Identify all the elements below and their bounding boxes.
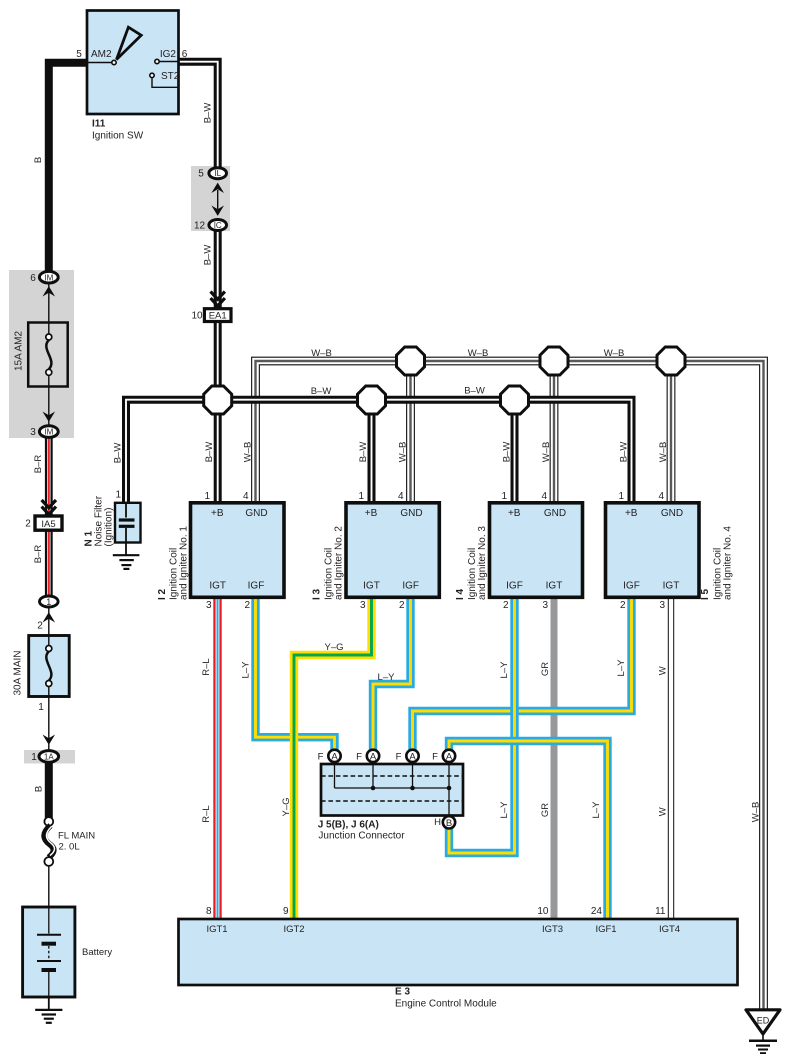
svg-text:10: 10 (537, 906, 549, 917)
svg-text:A: A (370, 751, 377, 762)
junction pin A2 (367, 750, 379, 762)
node octagon W-B at I3 column (397, 347, 425, 375)
svg-text:1: 1 (116, 490, 122, 501)
svg-text:L–Y: L–Y (499, 661, 510, 679)
svg-text:15A AM2: 15A AM2 (14, 331, 25, 371)
svg-text:1: 1 (618, 491, 624, 502)
svg-text:1: 1 (31, 752, 37, 763)
svg-text:L–Y: L–Y (616, 659, 627, 677)
svg-text:3: 3 (30, 427, 36, 438)
svg-text:R–L: R–L (201, 658, 212, 675)
ED ground triangle (746, 1010, 780, 1034)
connector EA1 (204, 309, 231, 322)
svg-text:+B: +B (508, 508, 521, 519)
arrow up below IL (211, 183, 224, 193)
svg-text:30A MAIN: 30A MAIN (13, 650, 24, 695)
svg-text:1: 1 (204, 491, 210, 502)
svg-text:IGT: IGT (363, 580, 380, 591)
fuse 15A AM2 box (28, 323, 67, 387)
junction internal bus (334, 762, 336, 788)
svg-text:8: 8 (206, 906, 212, 917)
svg-text:B: B (446, 818, 452, 829)
svg-text:AM2: AM2 (91, 49, 112, 60)
svg-text:IGF: IGF (506, 580, 523, 591)
svg-text:IGT: IGT (546, 580, 563, 591)
wire thin: 30A MAIN to 1A (48, 697, 50, 751)
arrow down above IC (211, 206, 224, 216)
svg-text:Y–G: Y–G (324, 642, 343, 653)
battery ground (48, 997, 50, 1010)
svg-text:and Igniter No. 4: and Igniter No. 4 (723, 526, 734, 600)
svg-text:24: 24 (591, 906, 603, 917)
wire B-W horizontal bus with ends down to noise filter and I5 +B (126, 400, 632, 503)
svg-text:3: 3 (206, 600, 212, 611)
svg-text:GND: GND (245, 508, 267, 519)
svg-text:F: F (396, 752, 402, 763)
svg-text:H: H (434, 817, 441, 828)
svg-text:IC: IC (214, 221, 222, 230)
svg-text:GR: GR (540, 662, 551, 676)
svg-text:R–L: R–L (201, 805, 212, 822)
svg-text:W–B: W–B (658, 442, 669, 463)
gray band IL/IC connectors (191, 166, 230, 231)
connector IA5 (35, 516, 62, 530)
connector oval 5 IL (209, 168, 227, 179)
svg-text:(Ignition): (Ignition) (104, 508, 115, 547)
svg-text:4: 4 (658, 491, 664, 502)
svg-text:Ignition SW: Ignition SW (92, 131, 144, 142)
svg-text:A: A (409, 751, 416, 762)
svg-text:I11: I11 (92, 119, 106, 130)
svg-text:2: 2 (244, 600, 250, 611)
svg-text:5: 5 (76, 49, 82, 60)
wire L-Y: I2 IGF to junction A1 (256, 597, 335, 754)
svg-text:B–W: B–W (311, 386, 332, 397)
svg-text:IL: IL (214, 169, 221, 178)
terminal ST2 contact and line (150, 73, 154, 77)
svg-text:Engine Control Module: Engine Control Module (395, 999, 497, 1010)
terminal line IG2 (159, 61, 178, 63)
svg-text:IM: IM (44, 273, 53, 282)
svg-text:Junction Connector: Junction Connector (318, 831, 405, 842)
wire W-B net: I2 GND up, across top, down right side to ED (256, 361, 764, 1010)
ignition coil I4 box (490, 503, 583, 598)
gray band fuse 15A AM2 (9, 270, 74, 438)
terminal IG2 contact (155, 59, 159, 63)
wire Y-G: I3 IGT to ECM IGT2 (294, 597, 372, 919)
wire B-W branch to I4 +B (511, 400, 519, 503)
svg-text:and Igniter No. 3: and Igniter No. 3 (477, 526, 488, 600)
svg-text:I 3: I 3 (312, 588, 323, 600)
svg-text:5: 5 (198, 169, 204, 180)
svg-text:W–B: W–B (604, 348, 625, 359)
svg-text:IGF: IGF (402, 580, 419, 591)
svg-text:F: F (318, 752, 324, 763)
svg-text:IGT3: IGT3 (542, 924, 563, 935)
svg-text:1: 1 (38, 702, 44, 713)
svg-text:6: 6 (182, 49, 188, 60)
svg-text:I 2: I 2 (157, 588, 168, 600)
junction pin A4 (443, 750, 455, 762)
junction pin B (443, 816, 455, 828)
svg-text:2: 2 (25, 519, 31, 530)
svg-text:IGT1: IGT1 (206, 924, 227, 935)
svg-text:+B: +B (211, 508, 224, 519)
wire W-B branch to I4 GND (550, 361, 559, 503)
svg-text:B–W: B–W (113, 443, 124, 464)
svg-text:B–W: B–W (619, 442, 630, 463)
wire B-R from IA5 to connector 1 (45, 530, 53, 597)
capacitor inside noise filter (125, 503, 127, 518)
svg-text:2: 2 (503, 600, 509, 611)
fusible link FL MAIN (44, 817, 53, 826)
battery box (23, 907, 75, 997)
svg-text:IGF1: IGF1 (595, 924, 616, 935)
ignition coil I5 box (606, 503, 700, 598)
connector oval 3 IM (39, 426, 58, 438)
fuse 30A MAIN box (29, 636, 69, 697)
ignition coil I3 box (346, 503, 439, 598)
svg-text:3: 3 (360, 600, 366, 611)
svg-text:L–Y: L–Y (241, 661, 252, 679)
wire thin: oval1 to 30A MAIN (48, 607, 50, 636)
svg-text:I 4: I 4 (455, 588, 466, 600)
svg-text:ST2: ST2 (161, 71, 180, 82)
wire B-W branch to I3 +B (368, 400, 376, 503)
svg-text:ED: ED (757, 1015, 770, 1025)
svg-text:IM: IM (44, 428, 53, 437)
arrow chevrons above IA5 (42, 500, 56, 514)
arrow up to oval 1 (43, 612, 56, 622)
svg-text:A: A (331, 751, 338, 762)
svg-text:GR: GR (540, 803, 551, 817)
svg-text:E 3: E 3 (395, 987, 410, 998)
svg-text:GND: GND (400, 508, 422, 519)
svg-text:4: 4 (398, 491, 404, 502)
wire L-Y: junction A4 to ECM IGF1 (449, 741, 608, 919)
svg-text:B–W: B–W (204, 442, 215, 463)
wire B from ignition switch AM2 to 6 IM (49, 63, 87, 272)
svg-text:IGT4: IGT4 (659, 924, 680, 935)
svg-text:10: 10 (191, 311, 203, 322)
svg-text:IA5: IA5 (41, 519, 55, 530)
ground below noise filter (113, 554, 140, 556)
svg-text:GND: GND (544, 508, 566, 519)
svg-text:and Igniter No. 1: and Igniter No. 1 (179, 526, 190, 600)
svg-text:I 5: I 5 (700, 588, 711, 600)
svg-text:and Igniter No. 2: and Igniter No. 2 (334, 526, 345, 600)
svg-text:W–B: W–B (398, 442, 409, 463)
wire W-B branch to I3 GND (406, 361, 415, 503)
node octagon B-W at I2 column (204, 386, 232, 414)
svg-text:B–W: B–W (203, 245, 214, 266)
wire B from 1A to FL MAIN (45, 763, 53, 818)
wire B-W from IC to EA1 (214, 231, 222, 309)
svg-text:A: A (446, 751, 453, 762)
ignition switch key wedge (117, 27, 142, 59)
wire L-Y: I5 IGF to junction A3 (413, 597, 632, 754)
arrow chevrons above EA1 (211, 292, 225, 306)
svg-text:IGT: IGT (209, 580, 226, 591)
svg-text:11: 11 (655, 906, 666, 917)
node octagon W-B at I4 column (540, 347, 568, 375)
svg-text:2. 0L: 2. 0L (59, 842, 80, 853)
svg-text:+B: +B (365, 508, 378, 519)
svg-text:F: F (356, 752, 362, 763)
svg-text:W–B: W–B (468, 348, 489, 359)
svg-text:W–B: W–B (541, 442, 552, 463)
svg-text:L–Y: L–Y (499, 801, 510, 819)
svg-text:B: B (33, 157, 44, 163)
wire W-B branch to I5 GND (667, 361, 676, 503)
svg-text:W–B: W–B (311, 348, 332, 359)
svg-text:W: W (658, 807, 669, 816)
connector oval 12 IC (209, 220, 227, 231)
junction connector box J5(B) J6(A) (321, 764, 463, 816)
node octagon B-W at I4 column (501, 386, 529, 414)
svg-text:B: B (33, 786, 44, 792)
arrow down to 3 IM (43, 412, 56, 422)
svg-text:EA1: EA1 (209, 311, 227, 322)
svg-text:4: 4 (541, 491, 547, 502)
wire GR: I4 IGT to ECM IGT3 (551, 597, 558, 919)
terminal AM2 contact (112, 60, 116, 64)
wire B-R from 3 IM to IA5 (45, 438, 53, 517)
svg-text:12: 12 (194, 221, 206, 232)
svg-text:Y–G: Y–G (281, 797, 292, 816)
svg-text:B–W: B–W (203, 103, 214, 124)
svg-text:W–B: W–B (751, 802, 762, 823)
svg-text:IG2: IG2 (160, 49, 177, 60)
ignition switch I11 box (87, 11, 179, 115)
svg-text:2: 2 (37, 621, 43, 632)
svg-text:J 5(B), J 6(A): J 5(B), J 6(A) (318, 820, 379, 831)
wire B-W from EA1 through junction node to I2 +B (214, 321, 222, 503)
svg-text:IGF: IGF (248, 580, 265, 591)
junction pin A3 (406, 750, 418, 762)
svg-text:3: 3 (542, 600, 548, 611)
svg-text:+B: +B (625, 508, 638, 519)
junction pin A1 (328, 750, 340, 762)
arrow up to 6 IM (43, 286, 56, 296)
wire thin: fuse to 3IM (48, 386, 50, 426)
svg-text:IGT: IGT (663, 580, 680, 591)
svg-text:9: 9 (283, 906, 289, 917)
arrow down to 1A (43, 735, 56, 745)
svg-text:2: 2 (399, 600, 405, 611)
connector oval 6 IM (39, 271, 58, 283)
svg-text:L–Y: L–Y (591, 801, 602, 819)
wire thin between IL and IC arrows (217, 190, 219, 209)
svg-text:2: 2 (620, 600, 626, 611)
node octagon W-B at I5 column (657, 347, 685, 375)
svg-text:1A: 1A (44, 752, 54, 761)
svg-text:6: 6 (30, 273, 36, 284)
svg-text:W–B: W–B (243, 442, 254, 463)
terminal line AM2 (87, 62, 112, 64)
svg-text:B–W: B–W (502, 442, 513, 463)
wire W: I5 IGT to ECM IGT4 (668, 597, 674, 919)
gray band 1A connector (24, 750, 75, 764)
svg-text:1: 1 (358, 491, 364, 502)
wire L-Y: I3 IGF to junction A2 (373, 597, 411, 754)
wire thin: FL MAIN to battery (48, 865, 50, 907)
wire thin: 6IM to fuse (48, 283, 50, 323)
svg-text:1: 1 (501, 491, 507, 502)
svg-text:4: 4 (243, 491, 249, 502)
svg-text:3: 3 (659, 600, 665, 611)
ignition coil I2 box (191, 503, 285, 598)
svg-text:IGT2: IGT2 (283, 924, 304, 935)
svg-text:F: F (432, 752, 438, 763)
svg-text:IGF: IGF (623, 580, 640, 591)
wire B-W from IG2 down to IL (178, 62, 218, 168)
wire L-Y: I4 IGF to junction B (449, 597, 515, 853)
wire R-L: I2 IGT to ECM IGT1 (213, 597, 221, 919)
svg-text:B–W: B–W (464, 386, 485, 397)
connector oval 1 (40, 596, 59, 607)
svg-text:B–W: B–W (358, 442, 369, 463)
ECM E3 box (179, 919, 738, 985)
svg-text:GND: GND (661, 508, 683, 519)
svg-text:FL MAIN: FL MAIN (58, 831, 95, 842)
node octagon B-W at I3 column (358, 386, 386, 414)
svg-text:B–R: B–R (33, 455, 44, 474)
svg-text:L–Y: L–Y (378, 672, 396, 683)
svg-text:B–R: B–R (33, 545, 44, 564)
connector oval 1A (39, 751, 59, 763)
svg-text:W: W (658, 666, 669, 675)
svg-text:1: 1 (46, 597, 51, 607)
noise filter N1 box (115, 503, 141, 543)
svg-text:Battery: Battery (82, 947, 112, 958)
